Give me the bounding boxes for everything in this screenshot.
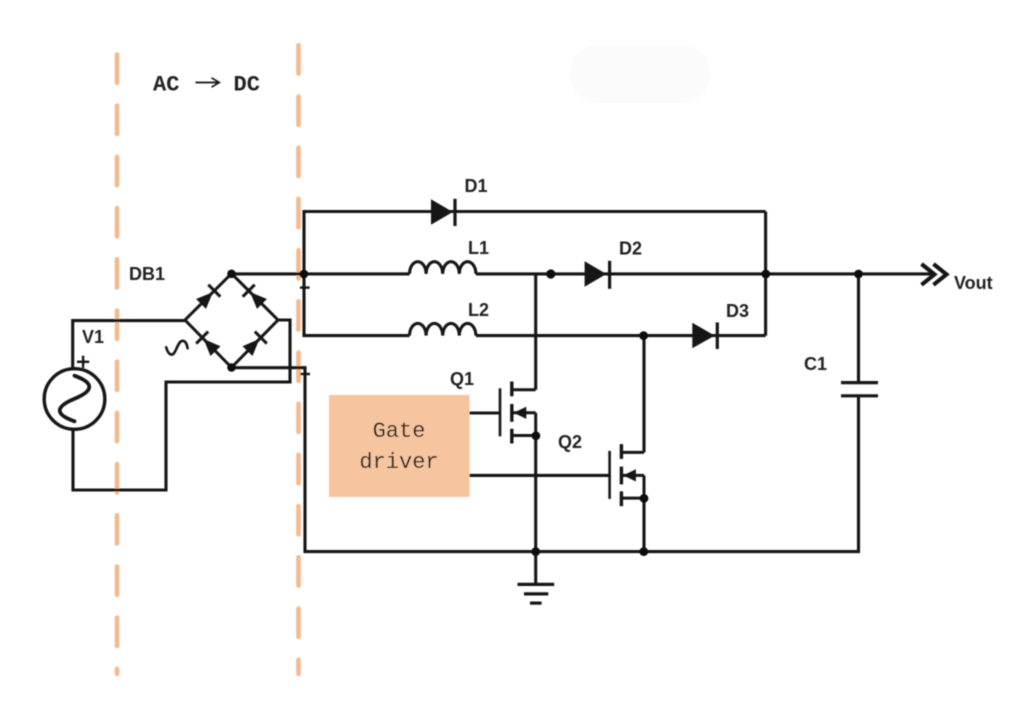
svg-text:driver: driver	[359, 450, 438, 475]
svg-text:DB1: DB1	[129, 264, 165, 284]
svg-text:V1: V1	[82, 327, 104, 347]
svg-text:D2: D2	[619, 239, 642, 259]
svg-text:D3: D3	[726, 301, 749, 321]
svg-text:Vout: Vout	[954, 273, 993, 293]
svg-text:Q2: Q2	[558, 432, 582, 452]
svg-text:Q1: Q1	[450, 369, 474, 389]
svg-text:L1: L1	[468, 238, 489, 258]
svg-text:DC: DC	[234, 73, 260, 98]
svg-text:L2: L2	[468, 300, 489, 320]
svg-text:AC: AC	[153, 73, 179, 98]
svg-text:D1: D1	[465, 176, 488, 196]
svg-text:Gate: Gate	[373, 419, 426, 444]
svg-text:C1: C1	[804, 354, 827, 374]
